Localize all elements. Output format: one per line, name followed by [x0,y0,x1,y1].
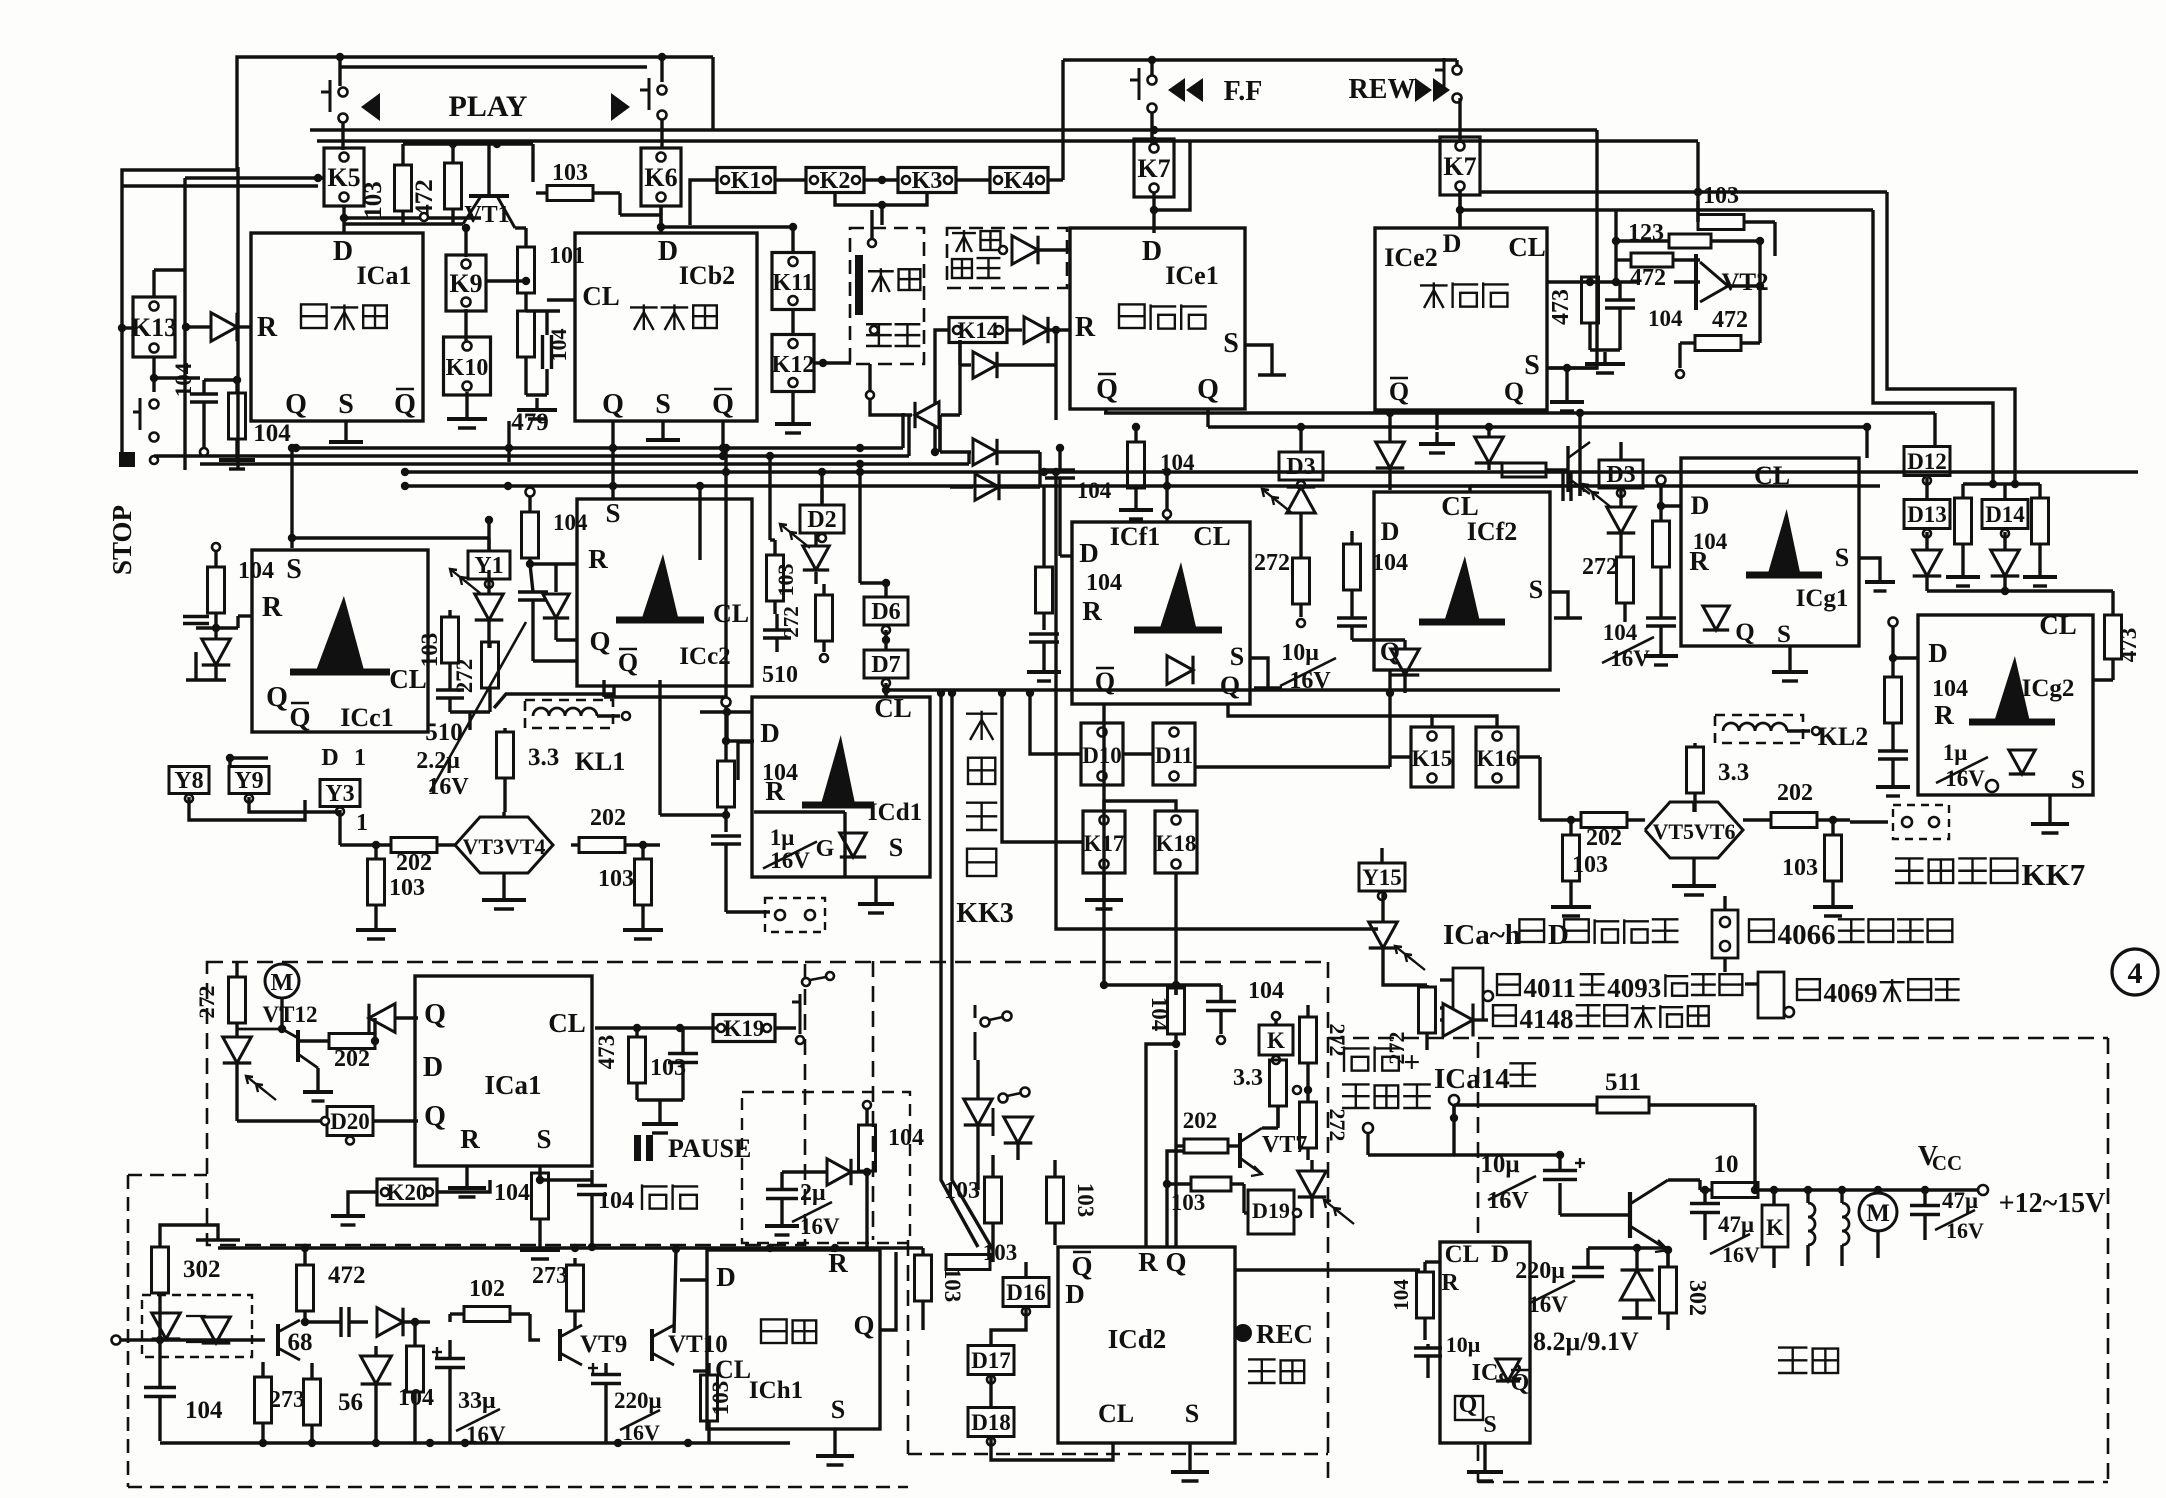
svg-text:S: S [831,1395,845,1424]
ICd1 diode [840,833,866,857]
IC ICa2 box [1440,1242,1530,1443]
wire k15 left [1390,755,1411,758]
wire K9 right [486,279,526,282]
switch FF [1148,76,1157,85]
resistor 302pw [1660,1267,1677,1313]
svg-text:K19: K19 [724,1016,765,1041]
svg-text:KK7: KK7 [2021,857,2085,892]
svg-text:VT5VT6: VT5VT6 [1652,819,1735,844]
box Y15 [1359,863,1405,891]
led rec [1298,1171,1327,1197]
svg-text:Q: Q [424,1101,446,1132]
box D17 [968,1346,1014,1375]
led y15 [1369,922,1398,948]
box D18 [968,1408,1014,1437]
svg-text:K7: K7 [1137,154,1170,183]
legend 4066 sym [1712,910,1738,958]
svg-text:S: S [1835,543,1849,572]
wire d12 h [1480,190,1887,193]
wire K2K3 sub [835,192,927,205]
svg-text:D19: D19 [1252,1198,1290,1223]
wire D2 up [820,490,823,505]
resistor 104b [229,393,246,439]
play bar top [341,65,647,68]
ICe2 S wire [1547,366,1597,369]
diode row2 [915,402,939,428]
box D7 [864,650,908,678]
bar single [855,255,863,315]
wire x860b vert [858,464,861,583]
node K13 left [118,324,126,332]
svg-text:Q: Q [1504,377,1524,406]
resistor 103b [547,186,593,201]
gnd c1 [214,666,217,680]
resistor 104f [1344,544,1361,590]
svg-text:M: M [271,970,294,996]
resistor 473g [2105,615,2122,659]
legend inv [1797,979,1820,1000]
svg-text:2μ: 2μ [800,1180,826,1206]
svg-text:Y3: Y3 [325,781,354,807]
box D10 [1081,723,1123,785]
svg-text:REC: REC [1256,1319,1313,1349]
svg-text:1: 1 [356,810,368,836]
cap series det [339,1307,342,1337]
svg-text:473: 473 [2116,628,2141,663]
svg-text:S: S [1529,575,1543,604]
svg-text:272: 272 [194,986,219,1019]
led D2 [803,546,829,570]
wire d3b up [1619,442,1622,460]
svg-text:273: 273 [532,1263,568,1289]
svg-text:511: 511 [1605,1069,1641,1096]
diode pair mid2 [1475,437,1504,463]
gnd 103L [374,918,377,930]
svg-text:Q: Q [1165,1247,1186,1277]
diode K14-R [1024,317,1048,343]
svg-text:4093: 4093 [1607,973,1661,1003]
wire K14 left [935,330,949,452]
svg-text:220μ: 220μ [614,1388,662,1413]
svg-text:K12: K12 [772,352,815,378]
resistor 103R [635,859,652,905]
resistor det3 [407,1346,424,1392]
coil pw2 [1840,1190,1843,1203]
wire K2-K3 [864,178,898,181]
wire d12 [1933,413,1936,447]
cap 104 left [190,392,218,395]
diode row4 [975,474,999,500]
svg-text:16V: 16V [1946,1218,1984,1243]
resistor 103v7 [1191,1177,1231,1191]
resistor 3.3b [1687,747,1704,793]
resistor 103tr [1698,215,1744,230]
relay K17 [1083,811,1125,873]
wire res103a top [403,142,533,145]
svg-text:CL: CL [1445,1241,1480,1268]
svg-text:104: 104 [546,329,571,362]
resistor 3.3a [497,732,514,778]
resistor 3.3r [1270,1060,1287,1106]
svg-text:STOP: STOP [107,505,137,575]
bus y486 [405,484,1880,487]
diode d3a up [1287,487,1316,513]
svg-text:102: 102 [469,1276,505,1302]
svg-text:VT9: VT9 [580,1331,627,1358]
svg-text:3.3: 3.3 [1718,759,1749,786]
bus y448 [296,446,903,449]
wire 104b top [204,378,237,381]
svg-text:D2: D2 [807,507,836,533]
wire icd1 cl up [884,690,887,697]
IC ICg2 box [1918,615,2093,795]
cap g1 [1646,616,1676,619]
wire K11 top [791,227,794,253]
svg-text:103: 103 [1572,852,1608,878]
svg-text:473: 473 [594,1035,619,1070]
wire opto [158,1307,161,1386]
cap 104 vt1 [541,335,544,369]
wire frame right drop [711,57,714,130]
wire 969 link [967,452,970,464]
relay K9 [446,255,486,311]
wire K13 top [152,270,155,297]
coil pw1 [1806,1190,1809,1203]
svg-text:K16: K16 [1477,746,1518,771]
svg-text:472: 472 [1630,265,1666,291]
box Y9 [229,767,269,794]
svg-text:S: S [338,389,354,420]
IC ICc2 box [577,499,752,686]
ICa1 S gnd [344,421,347,430]
resistor 101 [518,247,535,293]
wire 104m top [1104,983,1221,986]
IC ICa1b box [415,976,592,1166]
svg-text:ICd1: ICd1 [868,799,922,826]
wire x770 down [768,456,771,540]
svg-text:104: 104 [171,362,196,397]
led d3b [1607,507,1636,533]
svg-text:202: 202 [1586,825,1622,851]
resistor 104m [1168,988,1185,1034]
relay K12 [772,335,814,392]
resistor 272y [482,642,499,688]
resistor 103y [442,617,459,663]
wire cl p [595,1026,720,1029]
svg-text:D: D [333,236,353,267]
ICd1 tri [821,735,856,805]
gnd K10 [465,392,468,407]
svg-text:104: 104 [1389,1279,1413,1311]
relay K6 [641,148,681,206]
dashed rec left [872,961,875,1240]
IC ICf1 box [1072,522,1250,704]
svg-text:S: S [889,833,903,862]
ICb2 S gnd [661,421,664,428]
dashed contact kk7 [1893,805,1949,839]
resistor 472a [445,163,462,209]
resistor 202Ra [1771,813,1817,828]
label REC cjk [1248,1358,1276,1360]
svg-text:479: 479 [511,409,549,436]
diode d13 [1913,550,1942,576]
ICe2 S gnd [1435,410,1438,430]
svg-text:68: 68 [288,1329,313,1356]
svg-text:Q: Q [602,389,624,420]
motor pw [1859,1193,1897,1231]
svg-text:10μ: 10μ [1281,640,1319,666]
route icd2 top [1102,704,1105,985]
svg-text:D6: D6 [871,599,900,625]
wire ICf1 S [1250,658,1268,688]
cap c1 [183,615,209,618]
wire icalb s [538,1166,541,1180]
svg-text:R: R [1082,596,1102,626]
svg-text:10μ: 10μ [1480,1151,1519,1178]
svg-text:CL: CL [715,1355,751,1384]
svg-text:VT12: VT12 [263,1002,318,1027]
wire K17K18 top [1104,801,1176,811]
trans VT9 [558,1329,562,1361]
svg-text:K: K [1267,1028,1285,1053]
res f1b [1128,442,1145,488]
svg-text:Y9: Y9 [234,768,263,794]
resistor 102 [464,1307,510,1322]
svg-text:202: 202 [396,850,432,876]
dashed relay [765,898,825,932]
resistor 511 [1597,1097,1649,1113]
svg-text:4069: 4069 [1824,978,1878,1008]
wire K7a right [1154,142,1190,210]
label KK7 [1895,857,1924,859]
resistor 273e [567,1265,584,1311]
wire under K1 [690,180,718,225]
svg-text:103: 103 [650,1055,686,1081]
wire 472b down [1678,343,1681,368]
label FF arrows [1168,78,1185,102]
switch rec2 [999,1094,1008,1103]
ICa1 func [301,304,327,328]
wire y15 up [1380,848,1383,863]
label power pins [1343,1046,1345,1072]
svg-text:220μ: 220μ [1515,1258,1565,1284]
relay K4 [990,168,1048,193]
dashed pause box [207,962,805,1245]
wire K13 bottom [152,357,155,392]
resistor 472d [297,1265,314,1311]
cap g2 [1878,749,1908,752]
circled 4 [2112,949,2158,995]
gnd 473t [1590,348,1620,351]
wire ff top rail [1063,58,1457,61]
cap f2 [1337,616,1367,619]
wire 202L [340,843,391,846]
wire x726 vert [724,448,727,697]
svg-text:104: 104 [1086,570,1122,596]
cap a2 [1414,1346,1442,1349]
trans VT10 [650,1329,654,1361]
wire cl rail [1547,280,1640,283]
wire K7b-D [1458,191,1461,228]
ICd1 S gnd [874,877,877,892]
box D3b [1599,460,1643,488]
ICc1 tri [316,596,365,672]
wire x508 down [507,421,510,462]
dashed box single-side [850,228,924,364]
svg-text:ICh1: ICh1 [749,1377,803,1404]
svg-text:CL: CL [874,693,912,723]
resistor rd14 [2032,498,2049,544]
diode side-signal [1012,236,1038,265]
cap 104d [144,1386,176,1389]
wire diode cluster east [1038,452,1041,487]
wire y top [228,758,231,768]
svg-text:104: 104 [553,510,588,535]
relay K18 [1155,811,1197,873]
wire trans pw [1753,1105,1756,1190]
svg-text:103: 103 [708,1381,733,1416]
svg-text:273: 273 [269,1387,305,1413]
svg-text:103: 103 [773,564,798,597]
wire K7a bot [1152,193,1155,233]
svg-text:S: S [1777,621,1791,648]
svg-text:103: 103 [417,633,442,668]
svg-text:202: 202 [590,805,626,831]
svg-text:CL: CL [582,281,620,311]
wire f1 top [1163,510,1171,518]
wire 472d [303,1248,306,1258]
wire ICb2 Q down [611,421,614,486]
wire ff switch [1150,60,1153,76]
svg-text:104: 104 [185,1397,223,1424]
svg-text:10μ: 10μ [1446,1332,1481,1357]
svg-text:D: D [1548,919,1569,951]
svg-text:Q: Q [1389,377,1409,406]
resistor 473p [629,1037,646,1083]
svg-text:272: 272 [1325,1109,1350,1142]
trans fmid [1566,446,1569,492]
diode qp [369,1004,395,1033]
route icf1 top [1165,472,1168,510]
svg-text:104: 104 [888,1125,924,1151]
svg-text:D20: D20 [330,1109,370,1134]
wire diode from left [186,325,196,328]
svg-text:D7: D7 [871,652,900,678]
dashed rec right [1327,962,1330,1487]
resistor 104k9 [518,311,535,357]
svg-text:ICe2: ICe2 [1384,243,1437,272]
inductor KL1 [525,700,613,728]
relay K7b [1440,137,1480,195]
label KK3 vertical [966,713,997,715]
diode rec1 [964,1099,993,1125]
ICg1 gnd [1788,646,1791,660]
svg-text:K9: K9 [449,269,482,298]
relay K7a [1134,139,1174,197]
box D2 [800,505,844,533]
legend 4066 [1749,919,1774,942]
wire det top rail [218,1246,923,1249]
svg-text:8.2μ/9.1V: 8.2μ/9.1V [1533,1327,1639,1356]
wire left vertical bus [183,178,186,470]
svg-text:ICa1: ICa1 [484,1070,541,1100]
wire x960 drop [958,340,961,365]
resistor 272r2 [1300,1102,1317,1148]
opto arrows [186,1315,206,1317]
trans VT7 [1238,1133,1242,1168]
diode c1 [202,639,231,665]
svg-text:S: S [655,389,671,420]
svg-text:16V: 16V [1722,1242,1760,1267]
svg-text:ICc2: ICc2 [679,643,730,670]
wire D7 right rail [886,688,1560,691]
resistor 272d2 [816,595,833,641]
svg-text:1μ: 1μ [770,825,795,850]
svg-text:K10: K10 [446,355,489,381]
svg-text:3.3: 3.3 [528,744,559,771]
svg-text:REW: REW [1349,74,1416,105]
relay K3 [898,168,956,193]
gnd 479 [535,398,538,410]
wire play-K5 [341,122,344,150]
svg-text:R: R [460,1124,480,1154]
resistor fmid [1502,463,1546,477]
wire K5-D [342,206,345,233]
stop mark [119,452,135,467]
wire k18 202 link [1176,1144,1184,1147]
wire 473 cap join [637,1098,683,1101]
wire ich1 r [831,1248,834,1252]
wire d17-d18 [989,1375,992,1407]
cap 10u pw [1543,1169,1577,1172]
legend inv sym [1758,972,1784,1018]
wire vt7 c [1262,1126,1278,1129]
IC ICc1 box [252,550,428,732]
wire d3a [1299,427,1302,452]
svg-text:CL: CL [1193,521,1231,551]
photodiode y1 [475,594,504,620]
resistor 272r1 [1300,1017,1317,1063]
svg-text:CL: CL [548,1008,586,1038]
route d2 col [820,472,823,505]
svg-text:CC: CC [1932,1151,1962,1175]
wire y cluster [488,700,491,712]
play left arrow [361,93,380,121]
svg-text:VT1: VT1 [464,202,509,228]
wire d16 [1024,1262,1027,1277]
relay K11 [772,253,814,310]
svg-text:G: G [816,836,835,862]
box D6 [864,597,908,625]
trans 68 [276,1324,280,1356]
ICf1 diode [1167,656,1193,685]
wire d20 [373,1119,418,1122]
label side-signal [952,232,976,234]
circ single [868,239,876,247]
diode d14 [1991,550,2020,576]
svg-text:Q: Q [424,999,446,1030]
wire y15 bend [1383,972,1427,985]
svg-text:D: D [1928,638,1948,668]
ICb2 func [630,306,658,308]
svg-text:104: 104 [598,1188,634,1214]
svg-text:103: 103 [360,181,387,219]
svg-text:K11: K11 [772,270,813,296]
wire ICe1 S stub [1245,345,1272,375]
wire VT1 base [487,144,490,196]
resistor 272p [229,977,246,1023]
wire cap link [526,309,560,312]
